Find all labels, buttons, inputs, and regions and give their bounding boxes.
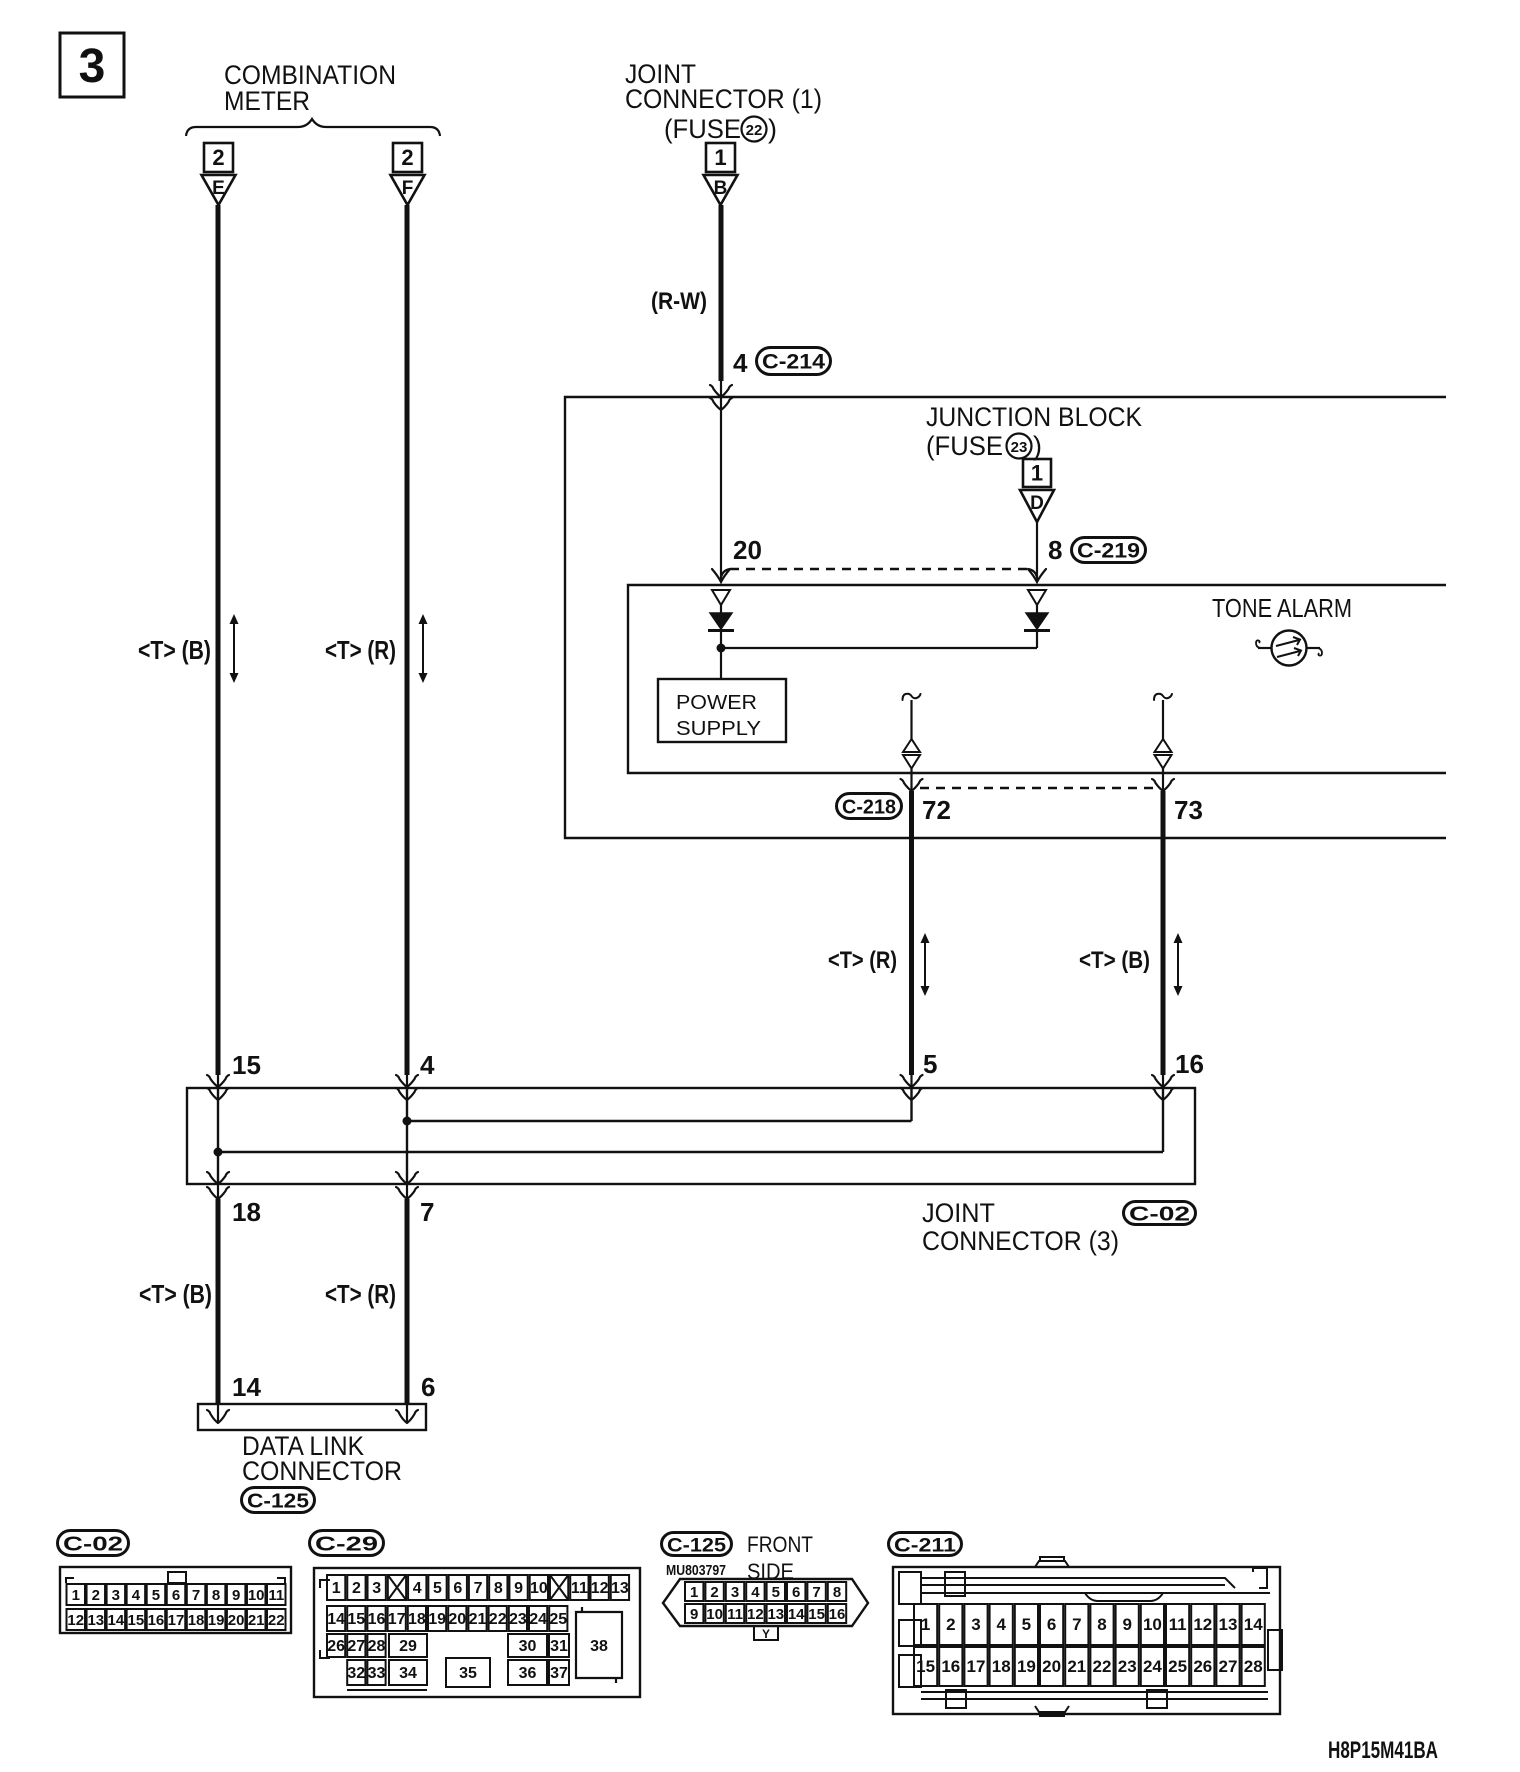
- svg-text:20: 20: [448, 1611, 466, 1628]
- label 4 and connector C-214: [733, 348, 831, 379]
- svg-text:4: 4: [420, 1050, 435, 1080]
- wire: combination meter pin F down to joint connector (3): [405, 205, 410, 1075]
- svg-text:20: 20: [1042, 1657, 1061, 1676]
- svg-text:26: 26: [327, 1638, 345, 1655]
- connector C-125 pinout drawing: [663, 1579, 868, 1641]
- wire from junction block fuse 23 down: [1036, 522, 1038, 566]
- svg-text:38: 38: [590, 1638, 608, 1655]
- svg-text:16: 16: [941, 1657, 960, 1676]
- svg-text:(FUSE: (FUSE: [664, 114, 741, 144]
- svg-text:4: 4: [751, 1584, 760, 1601]
- svg-text:1: 1: [332, 1580, 341, 1597]
- svg-text:22: 22: [489, 1611, 507, 1628]
- svg-text:6: 6: [453, 1580, 462, 1597]
- connector C-218 label: [837, 794, 902, 819]
- svg-text:C-125: C-125: [667, 1536, 726, 1557]
- svg-text:(FUSE: (FUSE: [926, 431, 1003, 461]
- svg-text:C-214: C-214: [762, 351, 825, 374]
- connector C-29 pinout drawing: [314, 1568, 640, 1697]
- svg-text:27: 27: [1219, 1657, 1238, 1676]
- svg-text:2: 2: [946, 1615, 955, 1634]
- svg-text:SUPPLY: SUPPLY: [676, 718, 761, 740]
- svg-text:1: 1: [690, 1584, 698, 1601]
- svg-text:CONNECTOR (1): CONNECTOR (1): [625, 84, 822, 114]
- svg-text:10: 10: [706, 1606, 723, 1623]
- svg-text:17: 17: [168, 1612, 185, 1629]
- svg-text:JOINT: JOINT: [922, 1198, 995, 1228]
- svg-text:8: 8: [494, 1580, 503, 1597]
- svg-text:2: 2: [92, 1587, 100, 1604]
- svg-text:15: 15: [128, 1612, 145, 1629]
- svg-text:19: 19: [428, 1611, 446, 1628]
- svg-text:12: 12: [747, 1606, 764, 1623]
- svg-text:12: 12: [591, 1580, 609, 1597]
- svg-text:<T> (B): <T> (B): [139, 1279, 212, 1309]
- svg-text:C-02: C-02: [1129, 1204, 1190, 1226]
- arrow into tone alarm pin 8: [1036, 566, 1038, 580]
- dashed bus line 20-8: [730, 568, 1028, 570]
- connector pin box 1 (D): [1023, 459, 1051, 487]
- svg-text:10: 10: [248, 1587, 265, 1604]
- svg-text:18: 18: [992, 1657, 1011, 1676]
- svg-text:73: 73: [1174, 795, 1203, 825]
- svg-text:5: 5: [772, 1584, 780, 1601]
- svg-text:27: 27: [347, 1638, 365, 1655]
- svg-text:6: 6: [172, 1587, 180, 1604]
- svg-text:16: 16: [368, 1611, 386, 1628]
- twisted arrow E wire: [233, 622, 235, 675]
- svg-text:H8P15M41BA: H8P15M41BA: [1328, 1737, 1438, 1764]
- svg-text:SIDE: SIDE: [747, 1559, 794, 1584]
- svg-text:24: 24: [1143, 1657, 1162, 1676]
- junction node at power supply: [717, 644, 726, 653]
- svg-text:9: 9: [232, 1587, 240, 1604]
- svg-text:2: 2: [352, 1580, 361, 1597]
- svg-text:23: 23: [1011, 439, 1028, 456]
- svg-text:1: 1: [72, 1587, 80, 1604]
- connector triangle D (junction block fuse 23): [1020, 490, 1054, 522]
- svg-text:14: 14: [327, 1611, 345, 1628]
- svg-text:9: 9: [690, 1606, 698, 1623]
- svg-text:Y: Y: [762, 1627, 770, 1641]
- joint connector (3) box: [187, 1088, 1195, 1184]
- connector C-125 pill (pinout): [662, 1533, 732, 1556]
- svg-text:(R-W): (R-W): [651, 288, 707, 315]
- svg-text:9: 9: [514, 1580, 523, 1597]
- twisted arrow F wire: [422, 622, 424, 675]
- svg-text:11: 11: [1169, 1615, 1187, 1634]
- crossing feet at junction block top edge: [710, 385, 732, 397]
- svg-text:22: 22: [1093, 1657, 1112, 1676]
- dashed line C-218: [920, 787, 1155, 789]
- svg-text:4: 4: [132, 1587, 141, 1604]
- svg-text:32: 32: [347, 1665, 365, 1682]
- svg-text:11: 11: [571, 1580, 588, 1597]
- connector C-02 pinout drawing: [60, 1567, 291, 1633]
- label FRONT SIDE: [747, 1532, 813, 1584]
- svg-text:13: 13: [767, 1606, 784, 1623]
- feet where wires leave tone alarm box: [901, 779, 923, 791]
- svg-text:11: 11: [727, 1606, 743, 1623]
- svg-text:10: 10: [1143, 1615, 1162, 1634]
- svg-text:C-219: C-219: [1077, 540, 1140, 563]
- svg-text:6: 6: [792, 1584, 800, 1601]
- svg-text:7: 7: [192, 1587, 200, 1604]
- svg-text:72: 72: [922, 795, 951, 825]
- label DATA LINK CONNECTOR: [242, 1431, 402, 1486]
- svg-text:21: 21: [1067, 1657, 1086, 1676]
- svg-text:24: 24: [529, 1611, 547, 1628]
- svg-text:4: 4: [413, 1580, 422, 1597]
- svg-text:16: 16: [1175, 1049, 1204, 1079]
- svg-text:26: 26: [1193, 1657, 1212, 1676]
- junction node on wire 4: [403, 1117, 412, 1126]
- svg-text:5: 5: [152, 1587, 160, 1604]
- twisted arrow 73: [1177, 941, 1179, 988]
- wire (R-W) from joint connector (1) pin B: [719, 205, 724, 381]
- svg-text:30: 30: [519, 1638, 537, 1655]
- svg-text:TONE ALARM: TONE ALARM: [1212, 593, 1352, 623]
- wire 18 down to data link connector: [216, 1199, 221, 1405]
- svg-text:17: 17: [388, 1611, 406, 1628]
- svg-text:6: 6: [421, 1372, 435, 1402]
- svg-text:18: 18: [408, 1611, 426, 1628]
- arrow into tone alarm pin 20: [720, 566, 722, 580]
- svg-text:28: 28: [1244, 1657, 1263, 1676]
- wire 72 down to joint connector (3): [909, 791, 914, 1075]
- svg-text:15: 15: [232, 1050, 261, 1080]
- svg-text:13: 13: [1219, 1615, 1238, 1634]
- svg-text:7: 7: [1072, 1615, 1081, 1634]
- svg-text:<T> (R): <T> (R): [325, 1279, 396, 1309]
- svg-text:<T> (R): <T> (R): [325, 635, 396, 665]
- svg-text:C-211: C-211: [894, 1536, 957, 1557]
- wire 7 down to data link connector: [405, 1199, 410, 1405]
- svg-text:4: 4: [996, 1615, 1006, 1634]
- svg-text:3: 3: [971, 1615, 980, 1634]
- svg-text:7: 7: [420, 1197, 434, 1227]
- svg-text:13: 13: [611, 1580, 629, 1597]
- svg-text:B: B: [714, 178, 728, 199]
- tone alarm unit box (open right): [628, 585, 1446, 773]
- svg-text:3: 3: [112, 1587, 120, 1604]
- brace under COMBINATION METER: [186, 119, 440, 136]
- wire: combination meter pin E down to joint connector (3): [216, 205, 221, 1075]
- svg-text:21: 21: [248, 1612, 265, 1629]
- svg-text:12: 12: [1193, 1615, 1212, 1634]
- label JOINT CONNECTOR (3): [922, 1198, 1119, 1256]
- svg-text:7: 7: [474, 1580, 483, 1597]
- svg-text:CONNECTOR (3): CONNECTOR (3): [922, 1226, 1119, 1256]
- svg-text:31: 31: [550, 1638, 568, 1655]
- wires inside joint connector: [217, 1088, 219, 1184]
- svg-text:JUNCTION BLOCK: JUNCTION BLOCK: [926, 402, 1142, 432]
- connector C-211 pill (pinout): [889, 1533, 962, 1556]
- svg-text:MU803797: MU803797: [666, 1562, 726, 1579]
- svg-text:15: 15: [808, 1606, 825, 1623]
- svg-text:29: 29: [399, 1638, 417, 1655]
- svg-text:22: 22: [746, 122, 763, 139]
- svg-text:C-29: C-29: [315, 1534, 378, 1556]
- svg-text:1: 1: [1031, 461, 1043, 486]
- connector triangle F (combination meter pin F): [391, 175, 425, 205]
- label JUNCTION BLOCK (FUSE 23): [926, 402, 1142, 461]
- svg-text:D: D: [1030, 493, 1044, 514]
- label 8 and connector C-219: [1048, 535, 1146, 565]
- svg-text:19: 19: [1017, 1657, 1036, 1676]
- svg-text:25: 25: [1168, 1657, 1187, 1676]
- junction block boundary (open right): [565, 397, 1446, 838]
- frame number 3: [60, 33, 124, 97]
- crossing feet at joint connector top: [207, 1075, 229, 1087]
- svg-text:14: 14: [1244, 1615, 1263, 1634]
- connector C-29 pill (pinout): [310, 1531, 384, 1556]
- svg-text:12: 12: [67, 1612, 84, 1629]
- label JOINT CONNECTOR (1) (FUSE 22): [625, 59, 822, 144]
- label COMBINATION METER: [224, 60, 396, 116]
- tone alarm output wire 73 (inside box): [1154, 694, 1172, 773]
- tone alarm input diode from pin 20: [708, 590, 734, 648]
- svg-text:13: 13: [87, 1612, 104, 1629]
- svg-text:8: 8: [833, 1584, 841, 1601]
- connector triangle B (joint connector 1 pin B): [704, 175, 738, 205]
- svg-text:34: 34: [399, 1665, 417, 1682]
- svg-text:16: 16: [829, 1606, 846, 1623]
- svg-text:20: 20: [228, 1612, 245, 1629]
- svg-text:14: 14: [232, 1372, 261, 1402]
- svg-text:2: 2: [401, 145, 413, 170]
- svg-text:METER: METER: [224, 86, 310, 116]
- svg-text:15: 15: [916, 1657, 935, 1676]
- svg-text:35: 35: [459, 1665, 477, 1682]
- internal bus wire 4-5: [407, 1120, 912, 1122]
- svg-text:8: 8: [212, 1587, 220, 1604]
- svg-text:7: 7: [812, 1584, 820, 1601]
- svg-text:FRONT: FRONT: [747, 1532, 813, 1557]
- svg-text:33: 33: [368, 1665, 386, 1682]
- svg-text:37: 37: [550, 1665, 568, 1682]
- svg-text:9: 9: [1122, 1615, 1131, 1634]
- twisted arrow 72: [924, 941, 926, 988]
- svg-text:C-125: C-125: [247, 1491, 309, 1513]
- svg-text:14: 14: [788, 1606, 805, 1623]
- svg-text:): ): [1033, 431, 1042, 461]
- svg-text:2: 2: [710, 1584, 718, 1601]
- wire 73 down to joint connector (3): [1161, 791, 1166, 1075]
- svg-text:21: 21: [469, 1611, 487, 1628]
- svg-text:17: 17: [967, 1657, 986, 1676]
- internal bus wire 15-16: [218, 1151, 1163, 1153]
- svg-text:19: 19: [208, 1612, 225, 1629]
- connector C-02 label: [1124, 1202, 1196, 1225]
- wire inside junction block from C-214 crossing: [720, 397, 722, 566]
- svg-text:5: 5: [1022, 1615, 1031, 1634]
- svg-text:18: 18: [188, 1612, 205, 1629]
- crossing feet at joint connector bottom: [207, 1172, 229, 1184]
- svg-text:6: 6: [1047, 1615, 1056, 1634]
- svg-text:8: 8: [1048, 535, 1062, 565]
- svg-text:<T> (B): <T> (B): [1079, 947, 1150, 974]
- svg-text:C-218: C-218: [842, 797, 896, 819]
- svg-text:22: 22: [268, 1612, 285, 1629]
- svg-text:16: 16: [148, 1612, 165, 1629]
- svg-text:3: 3: [372, 1580, 381, 1597]
- wire joining both diodes: [721, 647, 1037, 649]
- svg-text:3: 3: [731, 1584, 739, 1601]
- svg-text:25: 25: [549, 1611, 567, 1628]
- svg-text:5: 5: [923, 1049, 937, 1079]
- svg-text:<T> (R): <T> (R): [828, 947, 897, 974]
- svg-text:15: 15: [347, 1611, 365, 1628]
- data link connector box: [198, 1404, 426, 1430]
- svg-text:E: E: [212, 178, 225, 199]
- svg-text:8: 8: [1097, 1615, 1106, 1634]
- svg-text:): ): [768, 114, 777, 144]
- svg-text:1: 1: [714, 145, 726, 170]
- svg-text:36: 36: [519, 1665, 537, 1682]
- svg-text:2: 2: [212, 145, 224, 170]
- svg-text:<T> (B): <T> (B): [138, 635, 211, 665]
- svg-text:18: 18: [232, 1197, 261, 1227]
- tone alarm input diode from pin 8: [1024, 590, 1050, 648]
- svg-text:4: 4: [733, 348, 748, 378]
- tone alarm output wire 72 (inside box): [903, 694, 921, 773]
- connector pin box 2 (F): [393, 143, 422, 172]
- feet inside data link connector: [207, 1410, 229, 1423]
- svg-text:10: 10: [530, 1580, 548, 1597]
- power supply block: [658, 679, 786, 742]
- connector triangle E (combination meter pin E): [202, 175, 236, 205]
- svg-text:14: 14: [108, 1612, 125, 1629]
- svg-text:1: 1: [921, 1615, 930, 1634]
- wire to power supply: [720, 648, 722, 679]
- connector C-02 pill (pinout): [58, 1531, 129, 1556]
- svg-text:5: 5: [433, 1580, 442, 1597]
- svg-text:CONNECTOR: CONNECTOR: [242, 1456, 402, 1486]
- svg-text:C-02: C-02: [63, 1534, 123, 1556]
- svg-text:F: F: [402, 178, 414, 199]
- connector C-125 label: [242, 1488, 315, 1513]
- junction node on wire 15: [214, 1148, 223, 1157]
- svg-text:28: 28: [368, 1638, 386, 1655]
- svg-text:23: 23: [1118, 1657, 1137, 1676]
- svg-text:POWER: POWER: [676, 692, 757, 714]
- svg-text:20: 20: [733, 535, 762, 565]
- connector pin box 2 (E): [204, 143, 233, 172]
- connector C-211 pinout drawing: [893, 1557, 1282, 1716]
- connector pin box 1 (B): [706, 143, 735, 172]
- buzzer symbol: [1256, 631, 1322, 666]
- svg-text:23: 23: [509, 1611, 527, 1628]
- svg-text:11: 11: [268, 1587, 284, 1604]
- svg-text:3: 3: [79, 40, 106, 93]
